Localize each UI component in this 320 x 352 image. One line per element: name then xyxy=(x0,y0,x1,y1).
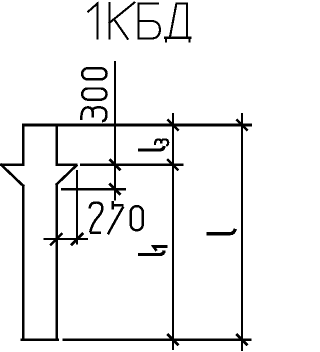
line B: corbel-top dimension line (y=164.8) xyxy=(80,164,183,166)
glyph Д bottom bar xyxy=(165,36,190,38)
digit 0 (top) xyxy=(82,68,106,79)
glyph К stem xyxy=(108,3,110,38)
glyph Б stem xyxy=(138,3,140,38)
tick V3 x D xyxy=(236,334,247,345)
line C: 270 dimension line (y=239.1) xyxy=(44,238,89,240)
tick V3 x A xyxy=(236,119,247,130)
column left edge upper xyxy=(22,125,25,164)
glyph Д left foot xyxy=(165,38,167,42)
digit 7 xyxy=(108,201,124,234)
label L (rotated l, larger) xyxy=(206,229,235,234)
ticks on horizontal dimension line C (slash direction) xyxy=(50,233,83,245)
line D: bottom dimension line (y=339.6) xyxy=(62,338,251,341)
circuit-free technical drawing: precast column elevation "1КБД" xyxy=(0,0,253,352)
tick C x V0 xyxy=(71,233,83,245)
title 1КБД (drawn as thin GOST-style strokes) xyxy=(88,3,190,42)
left corbel underside xyxy=(1,165,23,186)
glyph Д top bar xyxy=(176,2,187,4)
tick V1 x B' xyxy=(109,184,120,195)
digit 0 xyxy=(131,206,143,230)
tick V1 x B xyxy=(109,159,120,170)
column outline xyxy=(1,125,76,340)
line B': corbel bottom level line (y=188.9) xyxy=(61,188,126,190)
glyph Д right foot xyxy=(188,38,190,42)
column right edge upper xyxy=(55,125,58,164)
glyph 1 xyxy=(88,3,97,38)
dimension line V2 (l3 / l1) xyxy=(172,113,174,350)
glyph Б bowl xyxy=(139,21,160,39)
dimension line V1 (300) xyxy=(114,61,116,201)
ticks on vertical dimension lines (backslash direction) xyxy=(109,119,247,345)
column left edge lower xyxy=(22,186,25,340)
label l3 (rotated l with subscript 3) xyxy=(138,146,164,150)
line A: column top edge extended (dimension level, y=125) xyxy=(22,124,252,127)
digit 3 (bottom, rotated) xyxy=(81,107,106,121)
dimension text 270 (drawn as GOST-style strokes) xyxy=(90,201,143,234)
glyph Д right stem xyxy=(186,4,188,37)
extension line V0 from corbel tip xyxy=(76,170,78,245)
column bottom edge xyxy=(22,338,58,341)
glyph К upper arm xyxy=(110,3,135,23)
digit 2 xyxy=(90,203,103,233)
glyph К leg xyxy=(114,19,128,39)
tick V2 x B xyxy=(167,159,178,170)
label l1 (rotated l with subscript 1) xyxy=(138,251,164,255)
glyph Д left slant xyxy=(170,4,176,36)
digit 0 (middle) xyxy=(82,89,106,100)
dimension text 300 (rotated, drawn as GOST-style strokes) xyxy=(81,68,106,121)
left corbel top xyxy=(1,163,23,166)
glyph Б top bar xyxy=(139,2,158,4)
right corbel underside xyxy=(57,165,77,184)
right corbel top xyxy=(57,163,77,166)
column right edge lower xyxy=(55,184,58,339)
tick V2 x D xyxy=(167,334,178,345)
tick C x column face xyxy=(50,233,62,245)
tick V2 x A xyxy=(167,119,178,130)
dimension line V3 (L) xyxy=(241,113,243,351)
